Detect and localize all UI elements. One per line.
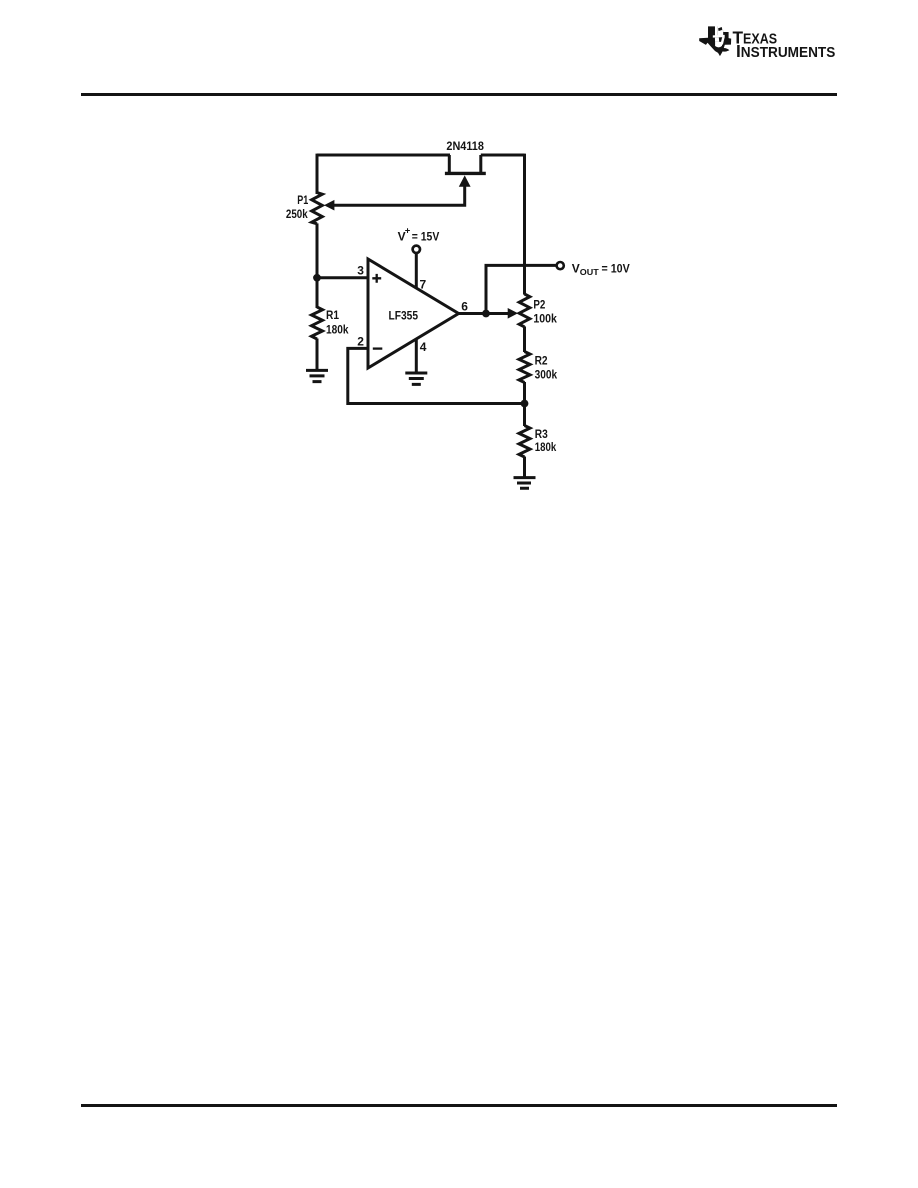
svg-text:2N4118: 2N4118 bbox=[446, 139, 484, 153]
wire: R3 to ground bbox=[523, 457, 526, 478]
arrowhead: JFET gate (points up) bbox=[459, 175, 471, 186]
svg-text:P1: P1 bbox=[297, 193, 308, 207]
resistor R2 body bbox=[519, 352, 530, 383]
resistor R3 body bbox=[519, 426, 530, 458]
wire: op-amp output bbox=[458, 312, 511, 315]
svg-text:180k: 180k bbox=[535, 440, 557, 454]
wire: R1 to ground bbox=[316, 339, 319, 371]
op-amp plus symbol bbox=[372, 274, 381, 283]
wire: R2 to node bbox=[523, 382, 526, 426]
svg-text:6: 6 bbox=[461, 299, 468, 313]
svg-text:300k: 300k bbox=[535, 367, 558, 381]
wire: feedback loop pin2 bbox=[348, 348, 525, 403]
svg-text:= 15V: = 15V bbox=[412, 232, 440, 244]
wire: top left drain wire bbox=[317, 154, 450, 157]
ground below R3 bbox=[514, 478, 536, 489]
header rule bbox=[81, 93, 837, 96]
svg-text:LF355: LF355 bbox=[389, 308, 419, 322]
svg-text:7: 7 bbox=[420, 277, 427, 291]
wire: output to VOUT terminal bbox=[486, 265, 556, 313]
potentiometer P1 body bbox=[312, 193, 323, 224]
svg-text:OUT: OUT bbox=[580, 267, 600, 277]
wire: V+ to pin 7 bbox=[415, 254, 418, 289]
svg-text:V: V bbox=[572, 261, 580, 275]
svg-text:R1: R1 bbox=[326, 308, 339, 322]
junction node: output bbox=[482, 310, 490, 318]
transistor Q1 right lead bbox=[479, 155, 482, 173]
svg-text:4: 4 bbox=[420, 340, 427, 354]
svg-text:+: + bbox=[405, 225, 411, 236]
svg-text:2: 2 bbox=[357, 335, 364, 349]
wire: pin 3 input bbox=[317, 276, 367, 279]
ground below R1 bbox=[306, 370, 328, 381]
wire: P1 wiper to gate bbox=[332, 186, 465, 206]
ground below pin 4 bbox=[405, 373, 427, 384]
potentiometer P2 body bbox=[519, 294, 530, 327]
wire: pin 4 to ground bbox=[415, 340, 418, 373]
transistor Q1 2N4118 left lead bbox=[448, 155, 451, 173]
wire: right rail from JFET to P2 bbox=[523, 154, 526, 295]
svg-text:100k: 100k bbox=[533, 312, 557, 326]
resistor R1 body bbox=[312, 307, 323, 339]
op-amp U1 triangle bbox=[368, 259, 459, 368]
TI logo bbox=[697, 24, 847, 62]
svg-text:R2: R2 bbox=[535, 353, 548, 367]
junction node: R2/R3 feedback bbox=[521, 400, 529, 408]
wordmark TEXAS INSTRUMENTS bbox=[733, 28, 836, 61]
wire: left rail middle bbox=[316, 223, 319, 308]
Texas state mark bbox=[699, 24, 731, 56]
terminal: V+ supply bbox=[413, 246, 420, 253]
svg-text:R3: R3 bbox=[535, 427, 548, 441]
footer rule bbox=[81, 1104, 837, 1107]
terminal: VOUT bbox=[557, 262, 564, 269]
wire: P2 to R2 bbox=[523, 326, 526, 352]
svg-text:180k: 180k bbox=[326, 322, 349, 336]
junction node: pin3 / P1 bbox=[313, 274, 321, 282]
arrowhead: P1 wiper (points left) bbox=[324, 200, 334, 211]
svg-text:P2: P2 bbox=[533, 298, 545, 312]
op-amp minus symbol bbox=[373, 347, 383, 349]
wire: left rail top bbox=[316, 154, 319, 194]
wire: top right bbox=[481, 154, 525, 157]
svg-text:3: 3 bbox=[357, 264, 364, 278]
arrowhead: P2 wiper (points right) bbox=[508, 308, 518, 319]
svg-text:250k: 250k bbox=[286, 207, 308, 221]
svg-text:= 10V: = 10V bbox=[602, 263, 631, 275]
transistor Q1 gate bar bbox=[445, 172, 486, 175]
